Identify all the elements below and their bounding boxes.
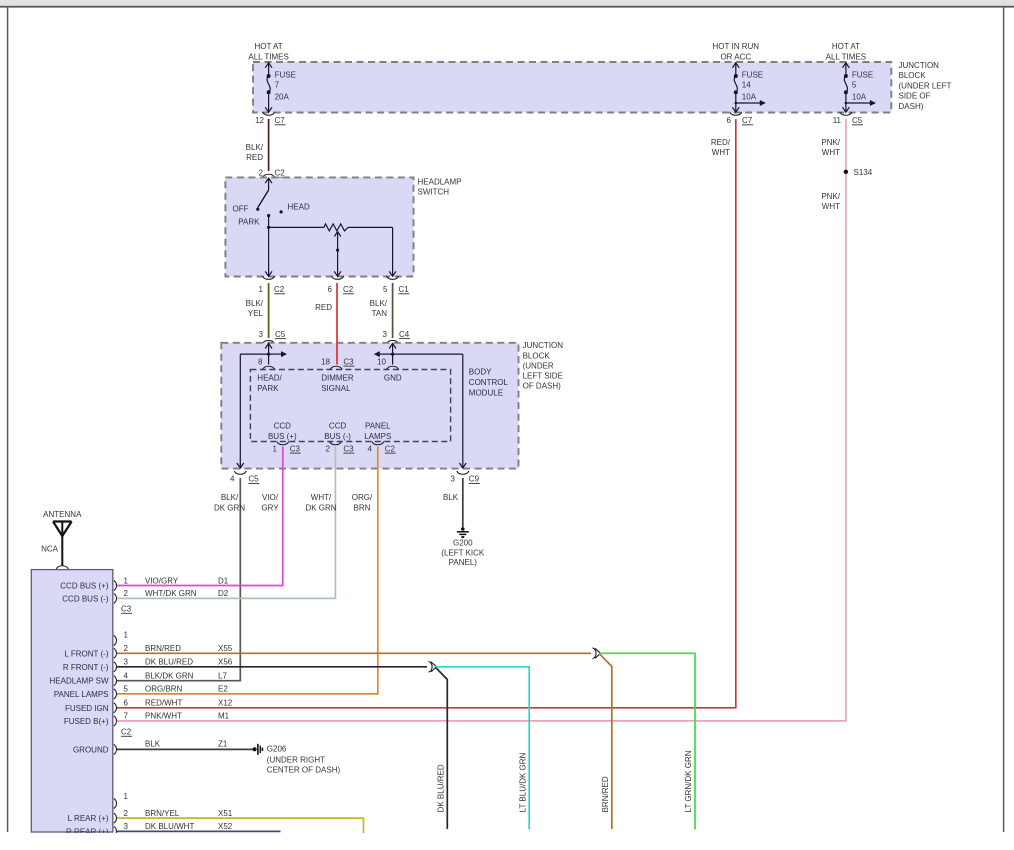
svg-text:YEL: YEL	[248, 309, 264, 318]
svg-text:(UNDER: (UNDER	[523, 361, 554, 370]
svg-text:BLK: BLK	[145, 740, 161, 749]
BCM pin 8 connector	[258, 357, 275, 369]
svg-text:X51: X51	[218, 809, 233, 818]
svg-text:C3: C3	[121, 605, 132, 614]
junction block 2 box	[221, 343, 518, 469]
svg-text:20A: 20A	[275, 92, 290, 101]
svg-text:PARK: PARK	[257, 384, 279, 393]
svg-text:BRN/RED: BRN/RED	[601, 776, 610, 812]
svg-text:5: 5	[383, 285, 388, 294]
wire label VIO/GRY	[261, 493, 279, 512]
svg-text:2: 2	[326, 444, 331, 453]
wire RED/WHT fuse14 to radio FUSED IGN	[117, 119, 736, 708]
BCM label CCD BUS (-)	[324, 421, 351, 441]
antenna symbol	[43, 510, 82, 566]
wire BLK/DK GRN JB2 to radio HEADLAMP SW	[117, 478, 240, 681]
svg-text:10: 10	[377, 357, 386, 366]
svg-text:5: 5	[124, 685, 129, 694]
wire BRN/YEL radio L REAR (+)	[117, 818, 364, 833]
svg-text:R FRONT (-): R FRONT (-)	[63, 663, 109, 672]
svg-text:1: 1	[124, 630, 129, 639]
svg-text:18: 18	[321, 357, 330, 366]
radio pin 3 C1 row (DK BLU/WHT X52)	[114, 822, 233, 836]
svg-text:C2: C2	[275, 169, 286, 178]
wire VIO/GRY BCM pin1 to radio CCD BUS (+)	[117, 447, 283, 586]
svg-text:BLOCK: BLOCK	[899, 71, 927, 80]
svg-text:C5: C5	[248, 475, 259, 484]
svg-text:HEADLAMP: HEADLAMP	[418, 178, 462, 187]
svg-text:BLK: BLK	[443, 493, 459, 502]
svg-text:BLK/: BLK/	[370, 299, 388, 308]
svg-text:HOT AT: HOT AT	[832, 42, 860, 51]
svg-text:4: 4	[368, 444, 373, 453]
svg-text:CCD: CCD	[329, 421, 347, 430]
svg-text:JUNCTION: JUNCTION	[523, 341, 564, 350]
svg-text:OFF: OFF	[233, 205, 249, 214]
svg-text:HEAD/: HEAD/	[257, 374, 282, 383]
wire BLK/TAN headlamp pin5 to JB pin3 C4	[392, 283, 394, 338]
svg-text:CONTROL: CONTROL	[469, 378, 509, 387]
svg-text:LT GRN/DK GRN: LT GRN/DK GRN	[684, 750, 693, 812]
BCM pin 18 connector C3	[321, 357, 354, 369]
svg-text:NCA: NCA	[41, 545, 59, 554]
svg-text:PARK: PARK	[238, 218, 260, 227]
svg-text:G200: G200	[453, 539, 473, 548]
svg-text:DIMMER: DIMMER	[321, 374, 354, 383]
BCM label PANEL LAMPS	[364, 421, 391, 441]
svg-text:C1: C1	[399, 285, 410, 294]
svg-text:C4: C4	[399, 330, 410, 339]
svg-text:HEADLAMP SW: HEADLAMP SW	[50, 677, 109, 686]
svg-text:GRY: GRY	[261, 503, 279, 512]
svg-text:VIO/: VIO/	[262, 493, 279, 502]
svg-text:4: 4	[230, 475, 235, 484]
JB2 internal node head/park feed	[237, 344, 287, 469]
svg-text:PNK/WHT: PNK/WHT	[145, 712, 182, 721]
fuse F14 10A	[732, 63, 765, 112]
junction block (top) box	[253, 62, 891, 113]
svg-text:CCD: CCD	[274, 421, 292, 430]
svg-text:RED/: RED/	[711, 138, 731, 147]
svg-text:DK BLU/RED: DK BLU/RED	[145, 658, 193, 667]
svg-text:DK BLU/RED: DK BLU/RED	[437, 764, 446, 812]
radio ground row (BLK Z1)	[114, 740, 228, 755]
radio pin 4 C2 row (BLK/DK GRN L7)	[114, 672, 228, 686]
wire LT GRN/DK GRN from connector	[600, 653, 695, 829]
JB2 pin 3 connector C9 (bottom)	[451, 471, 480, 484]
BCM pin 2 connector C3	[326, 442, 355, 454]
wire DK BLU/RED continues down	[436, 667, 448, 829]
wire label PNK/WHT (lower)	[821, 192, 840, 211]
BCM inner box	[250, 370, 450, 442]
svg-text:6: 6	[727, 116, 732, 125]
svg-text:SWITCH: SWITCH	[418, 188, 450, 197]
radio pin 2 C1 row (BRN/YEL X51)	[114, 809, 233, 823]
svg-text:DASH): DASH)	[899, 102, 924, 111]
wire WHT/DK GRN BCM pin2 to radio CCD BUS (-)	[117, 447, 335, 599]
svg-text:2: 2	[124, 809, 129, 818]
svg-text:HEAD: HEAD	[288, 203, 310, 212]
svg-text:G206: G206	[267, 745, 287, 754]
svg-text:2: 2	[124, 644, 129, 653]
svg-text:ORG/BRN: ORG/BRN	[145, 685, 183, 694]
wire BRN/RED radio L FRONT (-) to inline connector	[117, 652, 591, 654]
svg-text:LEFT SIDE: LEFT SIDE	[523, 372, 563, 381]
svg-text:BRN/RED: BRN/RED	[145, 644, 181, 653]
radio pin function labels	[50, 582, 109, 837]
svg-text:L7: L7	[218, 672, 227, 681]
svg-text:FUSE: FUSE	[852, 71, 873, 80]
svg-text:GND: GND	[384, 374, 402, 383]
svg-text:PNK/: PNK/	[821, 192, 840, 201]
svg-text:OF DASH): OF DASH)	[523, 382, 562, 391]
svg-text:WHT/DK GRN: WHT/DK GRN	[145, 589, 197, 598]
body control module label	[469, 368, 509, 398]
svg-text:BLK/DK GRN: BLK/DK GRN	[145, 672, 194, 681]
inline connector (BRN/RED)	[593, 648, 601, 659]
svg-text:1: 1	[273, 444, 278, 453]
junction block (top) label	[899, 61, 952, 111]
BCM label CCD BUS (+)	[268, 421, 297, 441]
svg-text:HOT AT: HOT AT	[255, 42, 283, 51]
svg-text:2: 2	[124, 589, 129, 598]
dimmer rheostat (resistor)	[269, 224, 396, 276]
radio pin 2 C3 row (WHT/DK GRN D2)	[114, 589, 229, 603]
dimmer wiper arrow	[334, 232, 341, 277]
fuse F5 10A	[843, 63, 876, 112]
svg-text:BUS (-): BUS (-)	[324, 432, 351, 441]
svg-text:BLOCK: BLOCK	[523, 351, 551, 360]
svg-text:ORG/: ORG/	[352, 493, 373, 502]
svg-text:C3: C3	[343, 357, 354, 366]
radio blank pin 1 (C2)	[114, 630, 129, 645]
wire LT BLU/DK GRN from connector	[436, 667, 529, 830]
svg-text:C2: C2	[343, 285, 354, 294]
svg-text:3: 3	[124, 822, 129, 831]
svg-text:BLK/: BLK/	[221, 493, 239, 502]
wire label RED/WHT	[711, 138, 731, 157]
svg-text:C5: C5	[852, 116, 863, 125]
svg-text:MODULE: MODULE	[469, 389, 503, 398]
svg-text:D1: D1	[218, 576, 229, 585]
ground G206	[253, 744, 341, 775]
wire BRN/RED continues down	[600, 654, 612, 829]
svg-text:C7: C7	[742, 116, 753, 125]
wire label BLK/TAN	[370, 299, 388, 318]
svg-text:SIGNAL: SIGNAL	[321, 384, 351, 393]
radio pin 5 C2 row (ORG/BRN E2)	[114, 685, 229, 699]
wire label ORG/BRN	[352, 493, 373, 512]
svg-text:CENTER OF DASH): CENTER OF DASH)	[267, 766, 341, 775]
svg-text:3: 3	[383, 330, 388, 339]
wire RED inside junction block 2 to BCM pin 18	[336, 342, 338, 365]
junction block 2 label	[523, 341, 564, 390]
svg-text:GROUND: GROUND	[73, 745, 109, 754]
svg-text:FUSE: FUSE	[742, 71, 763, 80]
svg-text:10A: 10A	[742, 92, 757, 101]
wire label BLK/YEL	[246, 299, 264, 318]
radio box	[31, 570, 113, 832]
radio pin 7 C2 row (PNK/WHT M1)	[114, 712, 230, 726]
svg-text:BLK/: BLK/	[246, 143, 264, 152]
svg-text:FUSE: FUSE	[275, 71, 296, 80]
svg-text:5: 5	[852, 81, 857, 90]
svg-text:HOT IN RUN: HOT IN RUN	[713, 42, 760, 51]
headlamp switch mechanism	[233, 178, 310, 276]
scan cut at bottom	[0, 833, 1014, 850]
svg-text:8: 8	[258, 357, 263, 366]
svg-text:FUSED IGN: FUSED IGN	[65, 704, 109, 713]
svg-text:3: 3	[259, 330, 264, 339]
inline connector (DK BLU/RED)	[429, 661, 437, 672]
svg-text:CCD BUS (+): CCD BUS (+)	[60, 582, 109, 591]
svg-text:7: 7	[124, 712, 129, 721]
svg-text:7: 7	[275, 81, 280, 90]
pin 6 connector C2 (headlamp switch)	[328, 276, 354, 294]
wire DK BLU/RED radio R FRONT (-) to inline connector	[117, 666, 427, 668]
svg-text:WHT: WHT	[822, 202, 840, 211]
svg-text:C2: C2	[385, 444, 396, 453]
svg-text:WHT: WHT	[822, 148, 840, 157]
svg-text:LAMPS: LAMPS	[364, 432, 391, 441]
svg-text:10A: 10A	[852, 92, 867, 101]
svg-text:ALL TIMES: ALL TIMES	[826, 53, 866, 62]
BCM pin 10 connector	[377, 357, 399, 369]
svg-text:11: 11	[833, 116, 842, 125]
pin 2 connector C2 (headlamp switch)	[259, 169, 286, 178]
power label HOT AT ALL TIMES (fuse 5)	[826, 42, 866, 62]
power label HOT AT ALL TIMES (fuse 7)	[248, 42, 288, 62]
svg-text:DK BLU/WHT: DK BLU/WHT	[145, 822, 194, 831]
svg-text:3: 3	[451, 475, 456, 484]
svg-text:VIO/GRY: VIO/GRY	[145, 576, 179, 585]
headlamp switch box	[225, 177, 413, 276]
svg-text:RED: RED	[246, 153, 263, 162]
svg-text:SIDE OF: SIDE OF	[899, 92, 931, 101]
wire BLK JB2 pin3 C9 to ground G200	[462, 478, 464, 527]
svg-text:X12: X12	[218, 699, 233, 708]
svg-text:BUS (+): BUS (+)	[268, 432, 297, 441]
wire BLK radio to ground G206	[117, 748, 253, 750]
svg-text:TAN: TAN	[372, 309, 388, 318]
wire BLK/RED fuse7 to headlamp switch	[268, 119, 270, 171]
power label HOT IN RUN OR ACC (fuse 14)	[713, 42, 760, 62]
radio pin 6 C2 row (RED/WHT X12)	[114, 699, 233, 713]
wire DK BLU/WHT radio R REAR (+)	[117, 830, 281, 832]
svg-text:(UNDER LEFT: (UNDER LEFT	[899, 81, 952, 90]
svg-text:PANEL LAMPS: PANEL LAMPS	[54, 690, 109, 699]
svg-text:L FRONT (-): L FRONT (-)	[65, 649, 109, 658]
svg-text:BRN/YEL: BRN/YEL	[145, 809, 180, 818]
svg-text:WHT/: WHT/	[311, 493, 332, 502]
svg-text:12: 12	[255, 116, 264, 125]
svg-text:1: 1	[124, 576, 129, 585]
wire label BLK/RED	[246, 143, 264, 162]
svg-text:M1: M1	[218, 712, 230, 721]
svg-text:14: 14	[742, 81, 751, 90]
BCM pin 1 connector C3	[273, 442, 301, 454]
fuse F7 20A	[265, 63, 296, 112]
svg-text:DK GRN: DK GRN	[214, 503, 245, 512]
svg-text:X56: X56	[218, 658, 233, 667]
radio pin 2 C2 row (BRN/RED X55)	[114, 644, 233, 658]
svg-text:L REAR (+): L REAR (+)	[68, 814, 109, 823]
svg-text:PNK/: PNK/	[821, 138, 840, 147]
pin 11 connector C5 (junction block)	[833, 112, 863, 125]
svg-text:(LEFT KICK: (LEFT KICK	[441, 549, 485, 558]
svg-text:LT BLU/DK GRN: LT BLU/DK GRN	[518, 752, 527, 812]
svg-text:C7: C7	[275, 116, 286, 125]
svg-text:C9: C9	[469, 475, 480, 484]
svg-text:OR ACC: OR ACC	[720, 53, 751, 62]
svg-text:6: 6	[328, 285, 333, 294]
svg-text:JUNCTION: JUNCTION	[899, 61, 940, 70]
svg-text:FUSED B(+): FUSED B(+)	[64, 717, 109, 726]
svg-text:2: 2	[259, 169, 264, 178]
radio blank pin 1 (C1)	[114, 792, 129, 809]
svg-text:6: 6	[124, 699, 129, 708]
radio pin 3 C2 row (DK BLU/RED X56)	[114, 658, 233, 672]
svg-text:1: 1	[259, 285, 264, 294]
antenna connector at radio	[56, 566, 68, 569]
svg-text:1: 1	[124, 792, 129, 801]
svg-text:BLK/: BLK/	[246, 299, 264, 308]
pin 1 connector C2 (headlamp switch)	[259, 276, 285, 294]
wire label WHT/DK GRN	[305, 493, 336, 512]
svg-text:BRN: BRN	[354, 503, 371, 512]
wire ORG/BRN BCM pin4 to radio PANEL LAMPS	[117, 447, 378, 694]
ground G200	[441, 527, 485, 567]
svg-text:C5: C5	[275, 330, 286, 339]
wire RED headlamp pin6 to BCM pin18	[336, 283, 338, 342]
svg-text:4: 4	[124, 672, 129, 681]
svg-text:CCD BUS (-): CCD BUS (-)	[62, 594, 109, 603]
radio pin 1 C3 row (VIO/GRY D1)	[114, 576, 229, 590]
svg-text:S134: S134	[854, 168, 873, 177]
svg-text:D2: D2	[218, 589, 229, 598]
wire BLK/YEL headlamp pin1 to JB pin3 C5	[268, 283, 270, 338]
svg-text:DK GRN: DK GRN	[305, 503, 336, 512]
pin 12 connector C7 (junction block)	[255, 112, 285, 125]
svg-text:C2: C2	[121, 728, 132, 737]
pin 3 connector C5 (junction block 2 top)	[259, 330, 286, 344]
svg-text:C3: C3	[343, 444, 354, 453]
svg-text:PANEL: PANEL	[365, 421, 391, 430]
JB2 pin 4 connector C5 (bottom)	[230, 471, 259, 484]
svg-text:ANTENNA: ANTENNA	[43, 510, 82, 519]
JB2 internal node gnd	[374, 344, 466, 469]
svg-text:PANEL): PANEL)	[449, 558, 478, 567]
svg-text:RED/WHT: RED/WHT	[145, 699, 182, 708]
pin 3 connector C4 (junction block 2 top)	[383, 330, 410, 344]
svg-text:3: 3	[124, 658, 129, 667]
BCM pin 4 connector C2	[368, 442, 396, 454]
BCM label HEAD/PARK	[257, 374, 282, 393]
pin 6 connector C7 (junction block)	[727, 112, 753, 125]
headlamp switch label	[418, 178, 462, 197]
splice S134	[844, 168, 873, 177]
wire PNK/WHT fuse5 to radio FUSED B(+)	[117, 119, 846, 721]
svg-text:Z1: Z1	[218, 740, 228, 749]
svg-text:ALL TIMES: ALL TIMES	[248, 53, 288, 62]
svg-text:C2: C2	[274, 285, 285, 294]
svg-text:WHT: WHT	[712, 148, 730, 157]
svg-text:X52: X52	[218, 822, 233, 831]
wire label PNK/WHT (upper)	[821, 138, 840, 157]
svg-text:E2: E2	[218, 685, 228, 694]
svg-text:C3: C3	[290, 444, 301, 453]
svg-text:(UNDER RIGHT: (UNDER RIGHT	[267, 756, 325, 765]
svg-text:BODY: BODY	[469, 368, 492, 377]
pin 5 connector C1 (headlamp switch)	[383, 276, 409, 294]
wire label BLK/DK GRN	[214, 493, 245, 512]
BCM label DIMMER SIGNAL	[321, 374, 354, 393]
svg-text:RED: RED	[315, 303, 332, 312]
svg-text:X55: X55	[218, 644, 233, 653]
